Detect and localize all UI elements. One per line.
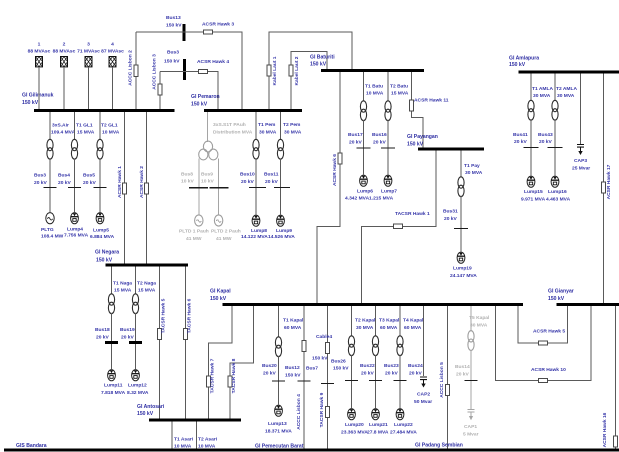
svg-text:150 kV: 150 kV	[285, 373, 301, 379]
load Lump11	[108, 370, 116, 381]
svg-text:88 MVAsc: 88 MVAsc	[53, 49, 76, 55]
transformer T5 Kapal (out of service)	[470, 306, 472, 332]
svg-text:T1 Pem: T1 Pem	[258, 122, 276, 128]
svg-text:20 kV: 20 kV	[121, 335, 135, 341]
wire	[99, 188, 101, 212]
svg-text:71 MVAsc: 71 MVAsc	[77, 49, 100, 55]
transformer	[385, 101, 391, 121]
svg-text:150 kV: 150 kV	[191, 102, 208, 108]
svg-text:87 MVAsc: 87 MVAsc	[101, 49, 124, 55]
transformer T2 Naga 15 MVA	[135, 267, 137, 295]
line TACSR Hawk 1 (Payangan-Kapal)	[362, 151, 437, 304]
transformer T1 Pay 30 MVA	[460, 151, 462, 178]
wire	[278, 356, 280, 381]
svg-text:5 Mvar: 5 Mvar	[463, 432, 479, 438]
transformer T2 Kapal 30 MVA	[351, 306, 353, 337]
generator PLTD 1 Pauh (gray)	[195, 215, 203, 226]
svg-text:6.884 MVA: 6.884 MVA	[90, 234, 115, 240]
wire	[399, 381, 401, 408]
svg-text:15 MVA: 15 MVA	[138, 288, 156, 294]
svg-text:20 kV: 20 kV	[83, 180, 97, 186]
svg-text:Lump5: Lump5	[93, 228, 109, 234]
svg-text:Lump19: Lump19	[453, 266, 472, 272]
svg-text:GI Baturiti: GI Baturiti	[310, 55, 335, 61]
wire	[387, 149, 389, 175]
svg-text:20 kV: 20 kV	[456, 372, 470, 378]
svg-text:20 kV: 20 kV	[349, 140, 363, 146]
svg-text:3: 3	[87, 42, 90, 48]
svg-text:25 Mvar: 25 Mvar	[572, 166, 590, 172]
line ACCC Lisbon 2 (Gilimanuk up to Bus13)	[135, 32, 137, 109]
line TACSR Hawk 6 (Negara-Antosari)	[185, 267, 187, 419]
transformer	[253, 139, 259, 159]
transformer T1 Kapal 60 MVA	[278, 306, 280, 338]
wire	[218, 189, 220, 216]
svg-text:T2 Pem: T2 Pem	[283, 122, 301, 128]
svg-text:20 kV: 20 kV	[539, 139, 553, 145]
svg-text:20 kV: 20 kV	[241, 179, 255, 185]
load Lump9	[277, 215, 285, 226]
svg-text:PLTG: PLTG	[41, 227, 54, 233]
svg-text:3xS.Air: 3xS.Air	[52, 123, 69, 129]
wire	[375, 381, 377, 408]
line symbol	[289, 65, 293, 76]
transformer T1 Pem 30 MVA	[255, 112, 257, 140]
load Lump5	[96, 213, 104, 224]
svg-text:27.484 MVA: 27.484 MVA	[390, 430, 417, 436]
transformer	[458, 177, 464, 197]
external grid 3	[85, 57, 92, 67]
svg-text:Lump4: Lump4	[67, 227, 83, 233]
node Bus16 20 kV	[381, 147, 395, 149]
line symbol	[158, 328, 162, 339]
svg-text:20 kV: 20 kV	[265, 179, 279, 185]
svg-text:ACCC Lisbon 3: ACCC Lisbon 3	[152, 54, 158, 90]
SECTION: Baturiti / Payangan	[310, 55, 484, 304]
svg-text:GIS Bandara: GIS Bandara	[16, 443, 47, 449]
wire	[530, 120, 532, 148]
symbol part	[468, 331, 474, 342]
line symbol	[394, 224, 403, 228]
load Lump16	[551, 176, 559, 187]
svg-text:9.971 MVA: 9.971 MVA	[521, 197, 546, 203]
node Bus5 20 kV	[94, 187, 107, 189]
svg-text:150 kV: 150 kV	[310, 62, 327, 68]
symbol part	[468, 339, 474, 350]
load Lump15	[527, 176, 535, 187]
svg-text:GI Payangan: GI Payangan	[407, 134, 438, 140]
svg-text:T1 GL1: T1 GL1	[76, 123, 93, 129]
node Bus22 20 kV	[345, 380, 358, 382]
svg-text:GI Padang Sembian: GI Padang Sembian	[415, 443, 463, 449]
wire	[460, 196, 462, 228]
svg-text:30 MVA: 30 MVA	[557, 93, 575, 99]
wire	[135, 344, 137, 369]
transformer	[360, 101, 366, 121]
line symbol	[326, 342, 330, 353]
wire	[111, 344, 113, 369]
svg-text:T5 Kapal: T5 Kapal	[469, 315, 490, 321]
svg-text:150 kV: 150 kV	[333, 366, 349, 372]
svg-text:T2 Kapal: T2 Kapal	[355, 318, 376, 324]
transformer	[277, 139, 283, 159]
svg-text:Bus3: Bus3	[34, 173, 46, 179]
load Lump20	[348, 409, 356, 420]
symbol part	[209, 149, 218, 160]
svg-text:ACSR Hawk 1: ACSR Hawk 1	[117, 166, 123, 198]
svg-text:20 kV: 20 kV	[409, 371, 423, 377]
node Bus18 20 kV	[105, 341, 118, 344]
wire	[63, 67, 65, 109]
node Bus4 20 kV	[68, 187, 81, 189]
busbar GI Gilimanuk 150 kV	[34, 109, 175, 112]
wire	[363, 149, 365, 175]
SECTION: Gianyar / bottom	[4, 289, 619, 451]
node Bus12 150 kV	[298, 380, 311, 382]
svg-text:GI Antosari: GI Antosari	[137, 404, 165, 410]
svg-text:TACSR Hawk 8: TACSR Hawk 8	[231, 358, 237, 393]
line ACSR Hawk 6 (Baturiti-Kapal)	[317, 72, 340, 303]
svg-text:ACCC Lisbon 5: ACCC Lisbon 5	[439, 362, 445, 398]
svg-text:GI Pemecutan Barat: GI Pemecutan Barat	[255, 444, 304, 450]
transformer T1 AMLA 30 MVA	[530, 74, 532, 102]
svg-text:8.32 MVA: 8.32 MVA	[127, 390, 149, 396]
svg-text:20 kV: 20 kV	[58, 180, 72, 186]
svg-text:Bus3: Bus3	[167, 50, 179, 56]
line ACSR Hawk 1 (Gilimanuk-Negara)	[124, 112, 126, 264]
wire	[375, 355, 377, 380]
svg-text:20 kV: 20 kV	[444, 216, 458, 222]
transformer T4 Kapal 60 MVA	[399, 306, 401, 337]
svg-text:Bus24: Bus24	[408, 363, 423, 369]
svg-text:41 MW: 41 MW	[186, 236, 202, 242]
busbar GI Baturiti 150 kV	[321, 69, 424, 72]
svg-text:GI Negara: GI Negara	[95, 250, 119, 256]
wire	[88, 67, 90, 109]
wire	[196, 220, 201, 223]
svg-text:4: 4	[111, 42, 114, 48]
wire	[278, 382, 280, 405]
wire	[554, 148, 556, 176]
transformer	[47, 139, 53, 159]
transformer T1 GL1 15 MVA	[74, 112, 76, 140]
svg-text:ACSR Hawk 17: ACSR Hawk 17	[606, 164, 612, 199]
transformer	[397, 336, 403, 356]
svg-text:ACCC Lisbon 2: ACCC Lisbon 2	[128, 50, 134, 86]
svg-text:Cable4: Cable4	[316, 334, 332, 340]
wire	[74, 188, 76, 212]
line symbol	[134, 65, 138, 76]
svg-text:150 kV: 150 kV	[166, 23, 182, 29]
svg-text:150 kV: 150 kV	[137, 411, 154, 417]
svg-text:10 MVA: 10 MVA	[366, 91, 384, 97]
wire	[112, 67, 114, 109]
transformer	[348, 336, 354, 356]
svg-text:150 kV: 150 kV	[210, 296, 227, 302]
svg-text:Bus16: Bus16	[372, 132, 387, 138]
transformer 3W PAuh (out of service)	[207, 112, 209, 142]
svg-text:T2 GL1: T2 GL1	[101, 123, 118, 129]
svg-text:Bus7: Bus7	[306, 366, 318, 372]
external grid 2	[61, 57, 68, 67]
transformer feeder T1 Asari	[171, 422, 173, 449]
transformer T1 Batu 10 MVA	[363, 72, 365, 102]
svg-text:Lump21: Lump21	[369, 422, 388, 428]
wire	[554, 120, 556, 148]
line ACSR Hawk 3	[204, 30, 213, 34]
transformer	[132, 294, 138, 314]
wire	[135, 313, 137, 341]
line ACSR Hawk 4	[199, 69, 208, 73]
wire	[218, 159, 220, 188]
line symbol	[302, 340, 306, 351]
svg-text:30 MVA: 30 MVA	[259, 130, 277, 136]
svg-text:Bus23: Bus23	[384, 363, 399, 369]
svg-text:Lump9: Lump9	[276, 228, 292, 234]
generator PLTG	[46, 213, 54, 224]
line ACSR Hawk 16 (Gianyar-Padang)	[615, 306, 617, 449]
wire	[111, 313, 113, 341]
svg-text:20 kV: 20 kV	[385, 371, 399, 377]
load Lump4	[71, 213, 79, 224]
generator PLTD 2 Pauh (gray)	[214, 215, 222, 226]
SECTION: Negara / Antosari	[95, 250, 254, 450]
node Bus10 20 kV	[249, 187, 266, 189]
load Lump19	[457, 252, 465, 263]
symbol part	[203, 141, 212, 152]
svg-text:T1 Naga: T1 Naga	[113, 281, 132, 287]
svg-text:Bus18: Bus18	[95, 327, 110, 333]
svg-text:Kabel Laut 1: Kabel Laut 1	[272, 56, 278, 85]
transformer	[97, 139, 103, 159]
svg-text:TACSR Hawk 5: TACSR Hawk 5	[161, 298, 167, 333]
node Bus3 150 kV	[183, 59, 186, 80]
wire	[399, 355, 401, 380]
node Bus19 20 kV	[129, 341, 142, 344]
capacitor	[420, 377, 427, 388]
load Lump7	[384, 175, 392, 186]
line symbol	[267, 65, 271, 76]
svg-text:TACSR Hawk 7: TACSR Hawk 7	[210, 358, 216, 393]
svg-text:T3 Kapal: T3 Kapal	[379, 318, 400, 324]
svg-text:15 MVA: 15 MVA	[77, 130, 95, 136]
svg-text:T2 Batu: T2 Batu	[390, 84, 408, 90]
busbar GI Gianyar 150 kV	[557, 303, 619, 306]
wire	[198, 159, 200, 188]
svg-text:41 MW: 41 MW	[216, 236, 232, 242]
busbar GI Antosari 150 kV	[149, 419, 241, 422]
node Bus24 20 kV	[394, 380, 407, 382]
SECTION: Amlapura	[509, 56, 619, 304]
wire	[470, 350, 472, 380]
svg-text:20 kV: 20 kV	[96, 335, 110, 341]
transformer 3xS.Air 109.4 MVA	[49, 112, 51, 140]
wire Bus13 horizontal	[136, 32, 242, 109]
line symbol	[539, 341, 548, 345]
svg-text:20 kV: 20 kV	[263, 371, 277, 377]
line TACSR Hawk 7 (Kapal-Antosari)	[209, 306, 233, 419]
svg-text:Kabel Laut 2: Kabel Laut 2	[294, 56, 300, 85]
external grid 4	[109, 57, 116, 67]
wire	[198, 189, 200, 216]
busbar GI Kapal 150 kV	[223, 303, 524, 306]
load Lump21	[372, 409, 380, 420]
wire	[280, 188, 282, 215]
svg-text:14.122 MVA: 14.122 MVA	[241, 234, 268, 240]
svg-text:Lump13: Lump13	[268, 421, 287, 427]
SECTION: Kapal	[210, 289, 591, 449]
line ACCC Lisbon 3 (Gilimanuk to Bus3 wire)	[159, 72, 161, 110]
busbar GI Payangan 150 kV	[418, 148, 484, 151]
wire	[280, 159, 282, 188]
svg-text:Lump8: Lump8	[251, 228, 267, 234]
wire	[470, 381, 472, 409]
capacitor CAP1 (gray)	[468, 410, 475, 421]
capacitor CAP3 25 Mvar	[580, 74, 582, 145]
svg-text:150 kV: 150 kV	[509, 62, 526, 68]
svg-text:Bus10: Bus10	[240, 172, 255, 178]
svg-text:Lump15: Lump15	[524, 189, 543, 195]
svg-text:Bus31: Bus31	[443, 209, 458, 215]
node Bus11 20 kV	[274, 187, 290, 189]
svg-text:Lump7: Lump7	[381, 189, 397, 195]
transformer feeder T2 Asari	[196, 422, 198, 449]
line symbol	[602, 182, 606, 193]
svg-text:PLTD 1 Pauh: PLTD 1 Pauh	[179, 229, 209, 235]
wire	[255, 159, 257, 188]
svg-text:T2 AMLA: T2 AMLA	[556, 86, 577, 92]
svg-text:109.4 MVA: 109.4 MVA	[51, 130, 76, 136]
load Lump6	[360, 175, 368, 186]
svg-text:3xS.S1T PAuh: 3xS.S1T PAuh	[213, 122, 246, 128]
svg-text:2: 2	[63, 42, 66, 48]
transformer	[275, 337, 281, 357]
svg-text:108.4 MW: 108.4 MW	[41, 234, 64, 240]
svg-text:15 MVA: 15 MVA	[391, 91, 409, 97]
transformer T3 Kapal 60 MVA	[375, 306, 377, 337]
line Kabel Laut 2 (Pemaron-Baturiti)	[291, 52, 327, 110]
svg-text:20 kV: 20 kV	[34, 180, 48, 186]
svg-text:Lump12: Lump12	[128, 383, 147, 389]
transformer T2 AMLA 30 MVA	[554, 74, 556, 102]
line ACSR Hawk 17 (Amlapura-Gianyar)	[603, 74, 605, 304]
svg-text:150 kV: 150 kV	[407, 142, 424, 148]
svg-text:30 MVA: 30 MVA	[356, 325, 374, 331]
busbar GI Pemaron 150 kV	[204, 109, 302, 112]
line symbol	[145, 183, 149, 194]
wire	[216, 220, 221, 223]
svg-text:30 MVA: 30 MVA	[470, 323, 488, 329]
svg-text:T1 Kapal: T1 Kapal	[283, 318, 304, 324]
svg-text:GI Gianyar: GI Gianyar	[548, 289, 574, 295]
svg-text:10 MVA: 10 MVA	[102, 130, 120, 136]
svg-text:Bus43: Bus43	[538, 132, 553, 138]
node Bus17 20 kV	[357, 147, 371, 149]
svg-text:Bus17: Bus17	[348, 132, 363, 138]
svg-text:Bus9: Bus9	[201, 172, 213, 178]
line symbol	[614, 436, 618, 447]
line ACSR Hawk 5 (Kapal-Gianyar)	[518, 306, 568, 343]
line symbol	[446, 384, 450, 395]
svg-text:Distribution MVA: Distribution MVA	[213, 130, 253, 136]
svg-text:150 kV: 150 kV	[96, 258, 113, 264]
svg-text:Bus22: Bus22	[360, 363, 375, 369]
svg-text:Bus12: Bus12	[285, 365, 300, 371]
svg-text:CAP2: CAP2	[417, 392, 430, 398]
svg-text:150 kV: 150 kV	[164, 59, 180, 65]
svg-text:24.147 MVA: 24.147 MVA	[450, 273, 477, 279]
svg-text:Bus26: Bus26	[331, 359, 346, 365]
svg-text:7.756 MVA: 7.756 MVA	[64, 233, 89, 239]
symbol part	[199, 149, 208, 160]
line symbol	[228, 376, 232, 387]
svg-text:Bus4: Bus4	[58, 173, 70, 179]
svg-text:15 MVA: 15 MVA	[114, 288, 132, 294]
line symbol	[338, 153, 342, 164]
svg-text:Lump16: Lump16	[548, 189, 567, 195]
line ACCC Lisbon 5 (Kapal-Padang)	[447, 306, 449, 449]
wire	[99, 159, 101, 188]
svg-text:GI Amlapura: GI Amlapura	[509, 56, 539, 62]
line TACSR Hawk 5 (Negara-Antosari)	[159, 267, 161, 419]
svg-text:23.363 MVA: 23.363 MVA	[341, 430, 368, 436]
line symbol	[123, 183, 127, 194]
line symbol	[326, 406, 330, 417]
svg-text:GI Pemaron: GI Pemaron	[191, 94, 220, 100]
line ACSR Hawk 10 (Kapal-Gianyar)	[496, 306, 592, 381]
transformer	[71, 139, 77, 159]
capacitor	[577, 145, 584, 156]
svg-text:150 kV: 150 kV	[548, 296, 565, 302]
node Bus31 20 kV	[454, 228, 468, 230]
transformer	[372, 336, 378, 356]
load Lump12	[132, 370, 140, 381]
svg-text:60 MVA: 60 MVA	[404, 325, 422, 331]
svg-text:ACSR Hawk 2: ACSR Hawk 2	[139, 166, 145, 198]
wire	[363, 120, 365, 148]
svg-text:20 kV: 20 kV	[514, 139, 528, 145]
wire	[38, 67, 40, 109]
svg-text:Bus8: Bus8	[181, 172, 193, 178]
svg-text:150 kV: 150 kV	[22, 100, 39, 106]
node Bus7	[321, 383, 334, 385]
svg-text:Lump22: Lump22	[394, 422, 413, 428]
svg-text:4.463 MVA: 4.463 MVA	[546, 197, 571, 203]
busbar GI Amlapura 150 kV	[519, 71, 619, 74]
busbar bottom GIS Bandara / Pemecutan / Padang Sembian	[4, 449, 619, 452]
svg-text:GI Gilimanuk: GI Gilimanuk	[22, 93, 54, 99]
svg-text:Lump20: Lump20	[345, 422, 364, 428]
line ACSR Hawk 11 (Baturiti-Payangan)	[412, 72, 424, 148]
svg-text:1: 1	[38, 42, 41, 48]
svg-text:4.342 MVA: 4.342 MVA	[345, 196, 370, 202]
transformer	[552, 100, 558, 120]
wire	[530, 148, 532, 176]
line symbol	[207, 376, 211, 387]
wire	[460, 229, 462, 252]
svg-text:ACSR Hawk 10: ACSR Hawk 10	[531, 367, 566, 373]
line symbol	[410, 100, 414, 111]
svg-text:ACCC Lisbon 4: ACCC Lisbon 4	[296, 394, 302, 430]
svg-text:88 MVAsc: 88 MVAsc	[28, 49, 51, 55]
line Kabel Laut 1 (Pemaron-Baturiti)	[269, 32, 352, 109]
line ACCC Lisbon 4 (Kapal-Pemecutan)	[303, 306, 305, 449]
transformer T1 Naga 15 MVA	[111, 267, 113, 295]
svg-text:60 MVA: 60 MVA	[284, 325, 302, 331]
capacitor CAP2 50 Mvar	[423, 306, 425, 376]
SECTION: top-middle Pemaron	[136, 15, 352, 242]
node Bus8 (gray)	[189, 187, 208, 189]
